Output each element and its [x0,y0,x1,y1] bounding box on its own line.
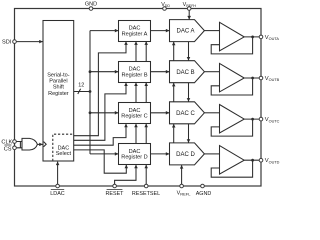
wire Register D to DAC D [151,153,170,155]
wire VREFL DAC B to DAC A [173,42,175,61]
wire DAC D to op-amp D [204,153,219,155]
svg-text:DAC B: DAC B [176,70,194,76]
svg-text:Register: Register [48,91,69,97]
wire DAC B to op-amp B [204,71,219,73]
wire VREFH into DAC A [188,10,190,19]
wire RESETSEL segment B [145,83,147,103]
Serial-to-Parallel Shift Register box U1 [43,21,74,162]
junction bus branch B [89,70,92,73]
op-amp A buffer [220,22,245,51]
svg-text:VOUTD: VOUTD [265,158,280,164]
pin VOUTA [259,35,263,39]
op-amp B buffer [220,63,245,92]
wire select A from DAC Select [74,42,126,136]
pin VOUTD [259,158,263,162]
op-amp C buffer [220,105,245,134]
DAC B block [170,61,205,83]
junction bus input [89,90,92,93]
wire VREFH DAC C to DAC D [188,124,190,143]
wire select B from DAC Select [74,83,126,141]
svg-text:VOUTA: VOUTA [265,35,280,41]
pin VREFH [187,7,191,11]
wire Register B to DAC B [151,71,170,73]
wire bus branch to DAC Register B [90,71,118,73]
wire VREFL pin to DAC D [181,165,183,185]
wire RESETSEL riser to register D [145,165,147,186]
op-amp D buffer [220,146,245,175]
svg-text:Register B: Register B [121,73,147,79]
pin VDD [163,7,167,11]
svg-text:AGND: AGND [196,191,212,196]
overline RESET [107,188,123,190]
svg-text:CS: CS [4,146,12,152]
pin VOUTB [259,76,263,80]
wire RESET segment A [135,42,137,62]
pin GND [89,7,93,11]
wire bus branch to DAC Register A [90,30,118,32]
wire 12-bit bus from shift register [74,91,90,93]
outer border of device [15,9,262,187]
pin VOUTC [259,117,263,121]
wire RESET routing to registers [115,165,136,186]
DAC C block [170,102,205,124]
wire op-amp B feedback [211,78,252,95]
junction op-amp B output [251,77,254,80]
DAC D block [170,143,205,165]
wire VREFL DAC C to DAC B [173,83,175,102]
svg-text:VOUTB: VOUTB [265,76,280,82]
wire op-amp D output to VOUTD [244,159,261,161]
wire op-amp C output to VOUTC [244,118,261,120]
svg-text:12: 12 [78,82,84,88]
wire VREFH DAC A to DAC B [188,42,190,61]
wire op-amp D feedback [211,160,252,177]
svg-text:Parallel: Parallel [49,79,67,85]
wire RESETSEL segment A [145,42,147,62]
wire RESETSEL segment C [145,124,147,144]
pin RESET [113,184,117,188]
svg-text:RESET: RESET [106,191,125,196]
wire Register A to DAC A [151,30,170,32]
svg-text:Register C: Register C [121,114,147,120]
wire gate output to shift register clock [37,143,42,145]
svg-text:VREFL: VREFL [177,191,192,196]
svg-text:DAC D: DAC D [176,152,195,158]
svg-text:Select: Select [56,151,72,157]
wire RESET segment C [135,124,137,144]
junction op-amp D output [251,159,254,162]
pin RESETSEL [144,184,148,188]
svg-text:Register D: Register D [121,155,147,161]
gate G1 CLK/CS input wires [16,142,22,148]
bus slash mark [78,89,81,94]
clock wedge symbol on shift register [44,142,47,147]
wire op-amp C feedback [211,119,252,136]
overline CS [4,144,11,146]
junction op-amp A output [251,36,254,39]
wire DAC C to op-amp C [204,112,219,114]
overline LDAC [51,188,64,190]
DAC Select dashed box [53,134,74,161]
svg-text:VDD: VDD [161,2,170,8]
junction bus branch C [89,111,92,114]
wire DAC A to op-amp A [204,30,219,32]
pin LDAC [56,184,60,188]
DAC Register B box [119,62,151,83]
wire VREFL DAC D to DAC C [173,124,175,143]
pin AGND [201,184,205,188]
bus vertical rail [89,31,91,154]
pin SDI [13,40,17,44]
wire bus branch to DAC Register D [90,153,118,155]
svg-text:LDAC: LDAC [50,191,64,196]
wire SDI input [16,41,42,43]
wire RESET segment B [135,83,137,103]
pin VREFL [180,184,184,188]
wire op-amp A feedback [211,37,252,54]
pin CLK [13,140,17,144]
wire select D from DAC Select [74,150,127,173]
svg-text:VREFH: VREFH [183,2,197,8]
DAC Register D box [119,144,151,165]
svg-text:Shift: Shift [53,85,64,91]
DAC A block [170,20,205,42]
gate G1 body [22,138,37,150]
svg-text:Serial-to-: Serial-to- [47,72,69,78]
svg-text:RESETSEL: RESETSEL [132,191,160,196]
wire bus branch to DAC Register C [90,112,118,114]
svg-text:DAC A: DAC A [176,29,194,35]
svg-text:VOUTC: VOUTC [265,117,280,123]
pin CS [13,146,17,150]
svg-text:DAC C: DAC C [176,111,195,117]
DAC Register A box [119,21,151,42]
DAC Register C box [119,103,151,124]
wire Register C to DAC C [151,112,170,114]
svg-text:SDI: SDI [2,40,12,46]
svg-text:GND: GND [85,1,97,7]
wire LDAC to shift register [57,162,59,186]
svg-text:Register A: Register A [122,31,148,37]
wire op-amp A output to VOUTA [244,36,261,38]
junction op-amp C output [251,118,254,121]
wire select C from DAC Select [74,124,126,145]
wire VREFH DAC B to DAC C [188,83,190,102]
wire op-amp B output to VOUTB [244,77,261,79]
